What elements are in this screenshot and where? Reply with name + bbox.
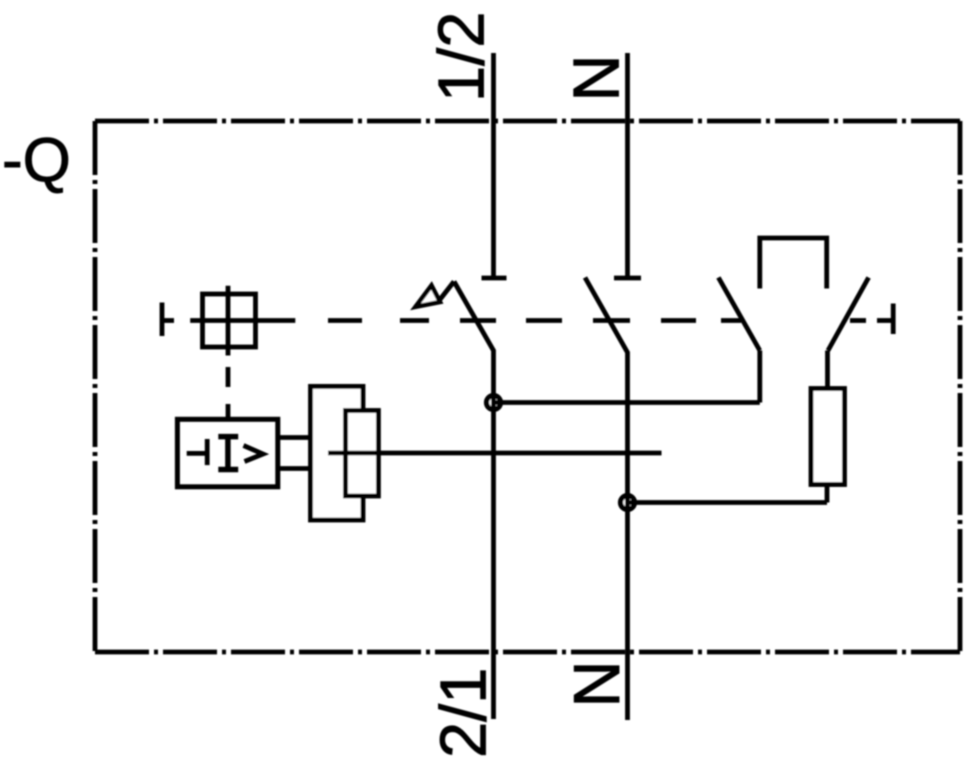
CT cross vertical (226, 286, 231, 356)
dashed link CT to release (226, 367, 231, 387)
I> symbol: -| part (187, 451, 208, 456)
enclosure boundary right edge (958, 121, 963, 652)
linkage dashes (328, 318, 362, 323)
current transformer W1 core (203, 294, 256, 347)
trip arrow open head (416, 286, 441, 307)
enclosure boundary left edge (93, 121, 98, 652)
wire: pole 1/2 top lead (491, 53, 496, 278)
wire: pole N top lead (625, 53, 630, 278)
wire: mechanism to poles (y=453) (328, 451, 662, 456)
svg-text:N: N (560, 55, 633, 102)
pole N moving contact blade (585, 278, 628, 721)
trip arrow line on pole 1 blade (438, 282, 454, 303)
svg-text:N: N (560, 661, 633, 708)
wire: left test contact lead (757, 351, 762, 403)
overcurrent release I> box (177, 419, 277, 487)
pole N fixed contact tick (614, 276, 641, 281)
linkage right tick (891, 304, 896, 335)
latch mechanism outer rect (311, 386, 364, 520)
test switch right blade (828, 278, 869, 351)
wire: junction A to test contact (494, 400, 760, 405)
test button bracket (760, 238, 827, 289)
svg-text:2/1: 2/1 (426, 668, 499, 758)
mechanical linkage dashed line ticks: left tick (160, 303, 165, 337)
junction A (donut) (487, 396, 501, 410)
junction B (donut) (621, 496, 635, 510)
wire: resistor bottom lead (825, 484, 830, 503)
enclosure boundary (dash-dot border) top edge (95, 119, 960, 124)
I> symbol: > glyph (244, 446, 264, 462)
resistor R1 (811, 389, 845, 485)
test switch left blade (718, 278, 759, 351)
pole 1 moving contact blade (454, 282, 494, 720)
I> symbol: I glyph (225, 437, 231, 471)
wire: resistor top lead (825, 351, 830, 391)
svg-text:-Q: -Q (2, 126, 71, 195)
wire: junction B to resistor (628, 500, 828, 505)
release stub bottom (278, 466, 311, 471)
linkage dash stub (162, 318, 174, 323)
enclosure boundary bottom edge (95, 650, 960, 655)
pole 1 fixed contact tick (482, 276, 507, 281)
CT cross horizontal (190, 318, 295, 323)
release stub top (278, 435, 311, 440)
svg-text:1/2: 1/2 (425, 12, 498, 102)
latch mechanism inner rect (346, 411, 379, 497)
